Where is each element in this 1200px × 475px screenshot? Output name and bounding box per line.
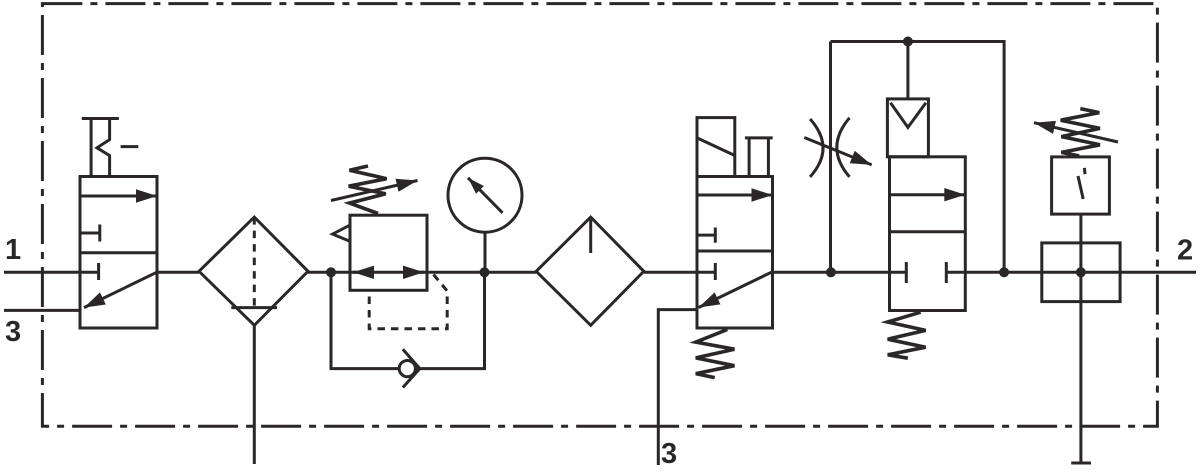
pressure switch S1 spring bbox=[1061, 109, 1100, 156]
valve V3 bottom box left blocked T bbox=[905, 262, 908, 283]
valve V3 bottom box right blocked T bbox=[945, 262, 948, 283]
flow control valve FC1 adjustment arrow bbox=[804, 138, 871, 165]
svg-text:1: 1 bbox=[5, 234, 21, 266]
wire V3 to outlet block / port 2 bbox=[946, 271, 1196, 274]
valve V3 mid line bbox=[890, 230, 966, 233]
wire port 3 bbox=[4, 309, 80, 312]
pilot drop wire to check valve bbox=[906, 42, 909, 99]
valve V3 return spring bbox=[888, 312, 926, 358]
outlet block vertical wire with vent end bbox=[1071, 214, 1091, 463]
gauge G1 stem bbox=[484, 232, 487, 272]
regulator R1 left flow arrowhead bbox=[353, 271, 372, 274]
valve V2 top box blocked port T bbox=[697, 228, 715, 243]
wire lubricator to valve V2 bbox=[644, 271, 716, 274]
regulator R1 relief vent arrow bbox=[333, 225, 350, 241]
pressure switch S1 contact bbox=[1078, 168, 1085, 199]
valve V3 body (soft start) bbox=[890, 157, 966, 311]
valve V2 bottom box exhaust diagonal arrow bbox=[699, 272, 773, 308]
check valve CV2 poppet V bbox=[891, 103, 926, 128]
lubricator L1 (diamond) bbox=[536, 217, 644, 325]
node D junction dot (top) bbox=[903, 37, 913, 47]
lubricator L1 drip line bbox=[589, 217, 592, 253]
regulator R1 right flow arrowhead bbox=[406, 271, 425, 274]
valve V2 bottom box blocked port T bbox=[714, 263, 717, 280]
pressure gauge G1 bbox=[448, 158, 522, 232]
check valve CV1 ball bbox=[399, 361, 415, 377]
node A junction dot bbox=[326, 267, 336, 277]
valve V1 bottom box blocked port T bbox=[97, 263, 100, 280]
wire V2 to valve V3 bbox=[773, 271, 907, 274]
valve V2 manual override button bbox=[745, 138, 773, 177]
valve V2 top box flow arrow bbox=[697, 194, 773, 197]
check valve CV2 box bbox=[887, 99, 928, 157]
valve V2 return spring bbox=[696, 330, 735, 378]
wire port 1 bbox=[4, 271, 99, 274]
regulator R1 adjustment spring bbox=[349, 166, 387, 214]
regulator R1 body bbox=[350, 215, 427, 290]
wire V1 to filter bbox=[157, 271, 199, 274]
filter F1 drain line bbox=[253, 325, 256, 464]
svg-text:2: 2 bbox=[1177, 235, 1193, 267]
node C junction dot bbox=[826, 267, 836, 277]
svg-text:3: 3 bbox=[661, 438, 677, 470]
bypass branch wire to node B bbox=[415, 272, 484, 368]
valve V2 exhaust port 3 wire bbox=[658, 310, 697, 465]
valve V1 body (3/2 manual shut-off) bbox=[80, 177, 157, 329]
svg-text:3: 3 bbox=[5, 316, 21, 348]
valve V2 mid line bbox=[697, 250, 773, 253]
bypass branch wire from node A down bbox=[331, 272, 399, 368]
valve V1 actuator minus sign bbox=[121, 145, 139, 148]
pressure switch S1 box bbox=[1052, 157, 1110, 214]
filter F1 dashed element line bbox=[253, 217, 256, 308]
valve V1 top box blocked port T bbox=[80, 225, 100, 242]
valve V1 mid line bbox=[80, 251, 157, 254]
valve V1 manual detent actuator bbox=[82, 119, 119, 177]
valve V3 top box flow arrow bbox=[890, 193, 966, 196]
check valve CV1 seat bbox=[403, 349, 420, 387]
gauge G1 needle bbox=[468, 178, 503, 213]
filter F1 separator chord bbox=[231, 306, 277, 309]
pilot top wire bbox=[831, 42, 1005, 273]
outlet block B1 bbox=[1042, 243, 1120, 302]
pressure switch S1 adjustment arrow bbox=[1034, 123, 1118, 142]
regulator R1 pilot dashed line bbox=[369, 275, 447, 329]
flow control valve FC1 throttle arcs bbox=[810, 118, 849, 177]
node F junction dot bbox=[1076, 267, 1086, 277]
filter F1 with water separator (diamond) bbox=[199, 217, 308, 325]
regulator R1 adjustment arrow bbox=[331, 181, 418, 201]
node E junction dot bbox=[999, 267, 1009, 277]
node B junction dot bbox=[480, 267, 490, 277]
wire filter to regulator / main line through regulator to lubricator bbox=[308, 271, 536, 274]
valve V1 bottom box exhaust diagonal arrow bbox=[84, 272, 157, 307]
valve V2 solenoid coil bbox=[697, 118, 735, 177]
pilot branch riser wire bbox=[829, 42, 832, 273]
valve V1 top box flow arrow bbox=[80, 195, 157, 198]
valve V2 body (3/2 solenoid valve) bbox=[697, 177, 773, 329]
